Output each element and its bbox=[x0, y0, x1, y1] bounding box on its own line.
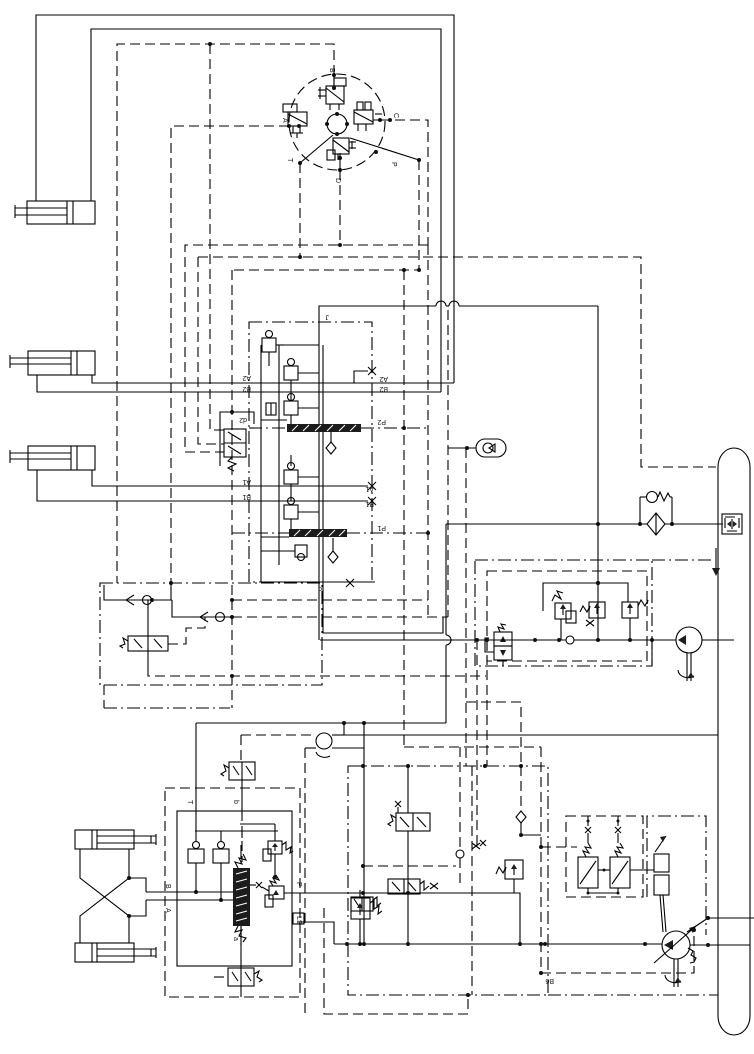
main control valve enclosure (dash-dot) bbox=[249, 313, 372, 582]
steering LS relief valve bbox=[351, 890, 382, 946]
solenoid valve SV1 bbox=[120, 636, 168, 651]
wire: rail B2 bbox=[37, 375, 441, 392]
check valve K1 bbox=[126, 595, 152, 605]
check ball on supply bbox=[516, 766, 543, 849]
drain diamond under P1 bbox=[328, 538, 338, 563]
pump case drain (dashed) bbox=[539, 928, 696, 984]
pilot wire P line bbox=[232, 160, 421, 272]
pilot cluster inner dashed box bbox=[487, 571, 647, 661]
wire: module line 2 bbox=[172, 600, 232, 617]
filter bypass valve bbox=[640, 492, 672, 525]
wire: C1 piston-side supply rail bbox=[91, 29, 441, 392]
check valve CH3 bbox=[284, 394, 298, 425]
svg-text:A2: A2 bbox=[379, 375, 388, 382]
joystick reducing valve top bbox=[318, 78, 346, 110]
pilot valve cluster enclosure (dash-dot) bbox=[475, 560, 712, 666]
wire P diagonal from joystick bbox=[350, 138, 421, 167]
svg-text:a: a bbox=[232, 937, 239, 941]
pilot wire C drop to valve bbox=[427, 245, 429, 617]
svg-text:b: b bbox=[232, 800, 239, 804]
wire: valve inlet from top rails bbox=[319, 301, 598, 640]
orifice with check bbox=[456, 840, 486, 858]
svg-text:A: A bbox=[281, 118, 288, 123]
check valve CH5 bbox=[284, 484, 298, 529]
relief valve R3 bbox=[622, 600, 648, 640]
pilot wire b drop inside module bbox=[241, 811, 243, 862]
svg-text:C: C bbox=[392, 113, 399, 118]
pilot wire to check module riser bbox=[230, 270, 234, 708]
joystick reducing valve bottom bbox=[327, 138, 356, 160]
unloading valve Va bbox=[388, 801, 430, 831]
wire: steering P supply drop bbox=[284, 891, 520, 944]
bottom enclosure (dash-dot) bbox=[348, 764, 718, 997]
svg-text:B2: B2 bbox=[379, 385, 388, 392]
LS port box bbox=[293, 913, 304, 925]
spool P2 (hatched bar) bbox=[287, 418, 386, 432]
steering cylinder bottom (rod right) bbox=[75, 943, 156, 962]
steering module outer box (dashed) bbox=[165, 788, 300, 997]
cylinder C2 (rod left) bbox=[10, 351, 95, 375]
svg-text:P1: P1 bbox=[377, 524, 386, 531]
wire: steering X cross bbox=[80, 849, 131, 943]
wire: module gallery bbox=[195, 831, 278, 838]
wire: C1 rod-side supply top rail bbox=[36, 15, 454, 383]
pressure reducing valve RV bbox=[485, 624, 512, 666]
check valve K2 bbox=[200, 612, 225, 622]
wire: valve internal T drop bbox=[323, 345, 443, 633]
plugged port XA1 bbox=[365, 482, 376, 492]
wire: rail A to steering valve bbox=[146, 898, 234, 913]
plug x on spool pilot bbox=[250, 882, 262, 888]
pilot wire D line bbox=[339, 170, 341, 245]
pilot wire module to bottom (dashed) bbox=[148, 668, 486, 678]
return filter bbox=[647, 513, 665, 535]
svg-text:B1: B1 bbox=[365, 500, 374, 507]
svg-text:B6: B6 bbox=[545, 977, 554, 984]
steering cylinder top (rod right) bbox=[75, 830, 156, 849]
svg-text:A1: A1 bbox=[365, 485, 374, 492]
proportional valve PV2 bbox=[610, 816, 630, 888]
check valve CKb bbox=[213, 831, 229, 900]
wire: module line 1 bbox=[104, 583, 172, 602]
proportional valve PV1 bbox=[578, 816, 598, 888]
wire: T drop from return line bbox=[196, 524, 451, 811]
wire: rail A1 to plug bbox=[92, 470, 368, 486]
node C (joystick) bbox=[373, 113, 399, 122]
pilot wire x472 LS bbox=[471, 766, 473, 995]
valve inner frame bbox=[261, 345, 375, 582]
svg-text:d: d bbox=[318, 585, 322, 592]
pump drain arrow to tank bbox=[712, 548, 720, 576]
node B (joystick) bbox=[328, 68, 336, 90]
breather coupling on tank bbox=[722, 514, 742, 534]
wire: P2 spool centerline bbox=[249, 426, 429, 430]
wire: main pump suction from tank bbox=[690, 943, 750, 947]
wire: pump LS diagonal bbox=[687, 916, 754, 932]
displacement actuator bbox=[654, 836, 669, 895]
pilot wire A line bbox=[171, 126, 289, 583]
wire: rail B1 to plug bbox=[37, 470, 368, 501]
wire: SV1 ports bbox=[148, 600, 205, 668]
pilot wire regulator link bbox=[541, 846, 577, 848]
svg-text:B2: B2 bbox=[242, 385, 251, 392]
steering spool (hatched) bbox=[233, 845, 250, 945]
main pump shaft bbox=[665, 959, 681, 987]
accumulator bbox=[448, 439, 506, 457]
pilot wire right box edge bbox=[447, 310, 449, 617]
svg-text:T: T bbox=[286, 158, 293, 163]
relief valve RS bbox=[240, 824, 293, 877]
svg-text:P2: P2 bbox=[377, 418, 386, 425]
cylinder C3 (rod left) bbox=[10, 446, 95, 470]
compensator valve CV bbox=[262, 875, 284, 907]
cylinder C1 (outrigger, rod left) bbox=[15, 201, 95, 224]
steering module solid box bbox=[177, 800, 302, 966]
node D (joystick) bbox=[334, 153, 342, 183]
wire: rail B to steering valve bbox=[146, 884, 234, 894]
plugged port XB1 bbox=[365, 497, 376, 507]
svg-text:B1: B1 bbox=[242, 493, 251, 500]
pilot wire x460 bbox=[459, 747, 461, 886]
joystick reducing valve right bbox=[354, 102, 382, 131]
dashed aux box bottom left bbox=[324, 908, 468, 1014]
relief valve R2 bbox=[580, 602, 605, 626]
control valve Vb bbox=[388, 879, 438, 894]
check valve CH6 bottom bbox=[261, 545, 307, 561]
wire: module T out bbox=[104, 685, 230, 708]
spool P1 (hatched bar) bbox=[289, 524, 386, 537]
wire: T into module bbox=[195, 811, 197, 841]
check valve CH4 bbox=[284, 455, 298, 484]
wire: valve P riser to pilot cluster bbox=[596, 306, 600, 642]
check module enclosure (dash-dot) bbox=[100, 581, 322, 685]
check valve CH2 bbox=[276, 345, 298, 401]
wire: P1 spool centerline bbox=[232, 531, 430, 535]
wire: rail A2 bbox=[92, 375, 454, 383]
pilot wire C line bbox=[185, 120, 428, 452]
plugged port XA2 bbox=[354, 367, 388, 383]
hydraulic tank bbox=[718, 448, 750, 1035]
wire: actuator to pump shaft link bbox=[660, 895, 666, 932]
pilot wire x477 bbox=[476, 640, 478, 850]
wire: regulator links bbox=[587, 869, 655, 895]
pilot wire P supply drop to valve and bottom bbox=[403, 270, 405, 747]
wire: main return line to tank bbox=[446, 522, 723, 526]
wire: pilot supply line bbox=[320, 638, 676, 642]
joystick center body circle bbox=[325, 112, 349, 136]
pilot wire dashed y747 bbox=[404, 747, 541, 973]
pump group enclosure (dash-dot) bbox=[647, 816, 706, 935]
plugged port d at valve bottom bbox=[318, 579, 354, 592]
relief valve Vd bbox=[496, 860, 523, 893]
pilot pump bbox=[676, 627, 734, 653]
svg-text:J: J bbox=[326, 313, 330, 320]
check valve CKa bbox=[188, 842, 204, 893]
wire T diagonal from joystick bbox=[286, 135, 333, 165]
orifice on pilot line bbox=[566, 636, 574, 644]
pilot valve b (top) bbox=[221, 762, 255, 811]
pilot wire T line to tank bbox=[198, 163, 716, 467]
wire: main LS line bbox=[334, 942, 662, 946]
pilot wire branch from B junction bbox=[210, 44, 224, 430]
wire: LS out bbox=[298, 922, 334, 944]
main pump (variable) bbox=[654, 926, 696, 963]
pilot wire B line bbox=[117, 42, 334, 583]
drain diamond under P2 bbox=[326, 432, 336, 454]
pilot wire accumulator drop bbox=[466, 448, 521, 766]
svg-text:A1: A1 bbox=[242, 478, 251, 485]
pilot wire a1/b1 dashed from module bbox=[232, 600, 448, 617]
wire: Va riser bbox=[407, 766, 409, 944]
joystick reducing valve left bbox=[283, 104, 307, 138]
joystick pilot valve: enclosure circle bbox=[289, 74, 385, 170]
svg-text:T: T bbox=[186, 800, 193, 805]
svg-text:P: P bbox=[390, 162, 397, 167]
wire: pilot gallery frame bbox=[543, 581, 628, 611]
svg-text:d2: d2 bbox=[239, 416, 247, 423]
relief valve R1 with pilot bbox=[552, 591, 576, 640]
svg-text:P: P bbox=[295, 882, 302, 887]
inline filter F1 bbox=[266, 403, 276, 415]
node A (joystick) bbox=[281, 118, 301, 128]
wire: cluster right drop bbox=[651, 640, 653, 666]
pilot valve d2 bbox=[220, 410, 254, 471]
svg-text:A2: A2 bbox=[242, 374, 251, 381]
pilot wire x487 bbox=[486, 640, 488, 766]
wire: port steps to rails bbox=[129, 878, 146, 916]
pilot pump shaft bbox=[678, 653, 694, 681]
control valve Vc bbox=[351, 897, 381, 911]
gear pump bbox=[241, 723, 718, 1014]
pilot wire y866 bbox=[361, 864, 456, 868]
wire: gear pump riser bbox=[363, 723, 365, 944]
pump regulator box (dashed) bbox=[566, 816, 643, 897]
svg-text:LS: LS bbox=[295, 916, 302, 925]
check valve CH1 bbox=[262, 331, 276, 367]
pilot valve a (bottom) bbox=[214, 926, 262, 997]
